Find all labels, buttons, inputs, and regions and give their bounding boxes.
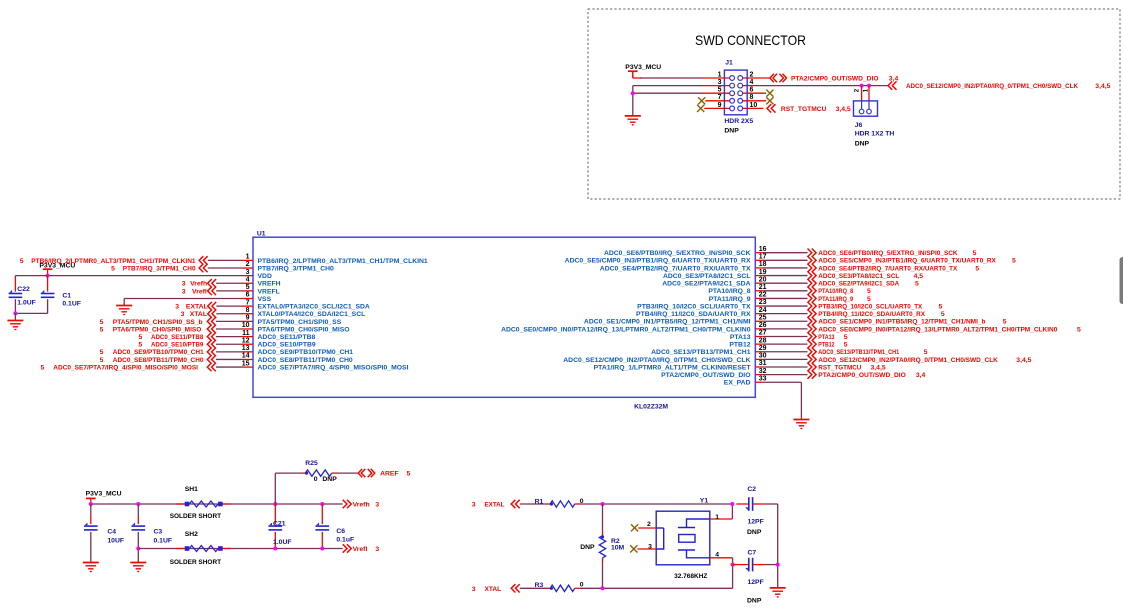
svg-text:1.0UF: 1.0UF xyxy=(273,539,292,546)
wire VDD rail xyxy=(48,275,242,277)
pin 8 U1 stub xyxy=(242,313,254,315)
wire U1 pin12 to port xyxy=(216,343,242,345)
svg-text:C22: C22 xyxy=(17,286,30,293)
wire J1 pin8 red stub xyxy=(742,100,766,102)
svg-text:9: 9 xyxy=(246,315,250,322)
wire U1 pin4 to port xyxy=(216,282,241,284)
wire C4 top leg xyxy=(90,504,92,517)
svg-text:SWD CONNECTOR: SWD CONNECTOR xyxy=(695,33,806,48)
svg-text:VSS: VSS xyxy=(258,296,272,303)
svg-text:XTAL: XTAL xyxy=(190,311,207,318)
wire U1 pin22 to port xyxy=(763,297,808,299)
wire C3 top leg red xyxy=(137,517,139,525)
svg-text:8: 8 xyxy=(246,307,250,314)
port PTA10/IRQ_8 (right) xyxy=(808,287,817,295)
svg-text:ADC0_SE2/PTA9/I2C1_SDA: ADC0_SE2/PTA9/I2C1_SDA xyxy=(818,281,899,288)
svg-text:PTB3/IRQ_10/I2C0_SCL/UART0_TX: PTB3/IRQ_10/I2C0_SCL/UART0_TX xyxy=(818,303,922,310)
wire U1 pin10 to port xyxy=(216,328,242,330)
port Vrefl (right) xyxy=(343,544,352,552)
svg-text:ADC0_SE9/PTB10/TPM0_CH1: ADC0_SE9/PTB10/TPM0_CH1 xyxy=(113,349,204,356)
pin 29 U1 stub xyxy=(755,351,763,353)
wire J1 pin2 red stub xyxy=(742,77,770,79)
wire XTAL to R3 xyxy=(520,587,546,589)
junction J6 pin2 tap xyxy=(860,84,864,88)
port ADC0_SE4/PTB2/IRQ_7/UART0_RX/UART0_TX (right) xyxy=(808,264,817,272)
svg-text:5: 5 xyxy=(20,258,24,265)
svg-text:20: 20 xyxy=(759,276,767,283)
svg-text:Vrefh: Vrefh xyxy=(190,281,207,288)
pin 1 U1 stub xyxy=(242,259,254,261)
svg-text:DNP: DNP xyxy=(747,598,762,605)
svg-text:ADC0_SE7/PTA7/IRQ_4/SPI0_MISO/: ADC0_SE7/PTA7/IRQ_4/SPI0_MISO/SPI0_MOSI xyxy=(53,364,198,371)
svg-text:1: 1 xyxy=(718,71,722,78)
wire R2 bottom red xyxy=(602,558,604,563)
svg-text:0.1UF: 0.1UF xyxy=(154,537,173,544)
svg-text:RST_TGTMCU: RST_TGTMCU xyxy=(781,106,827,113)
wire J1 pin9 red stub xyxy=(704,107,730,109)
wire U1 pin21 to port xyxy=(763,290,808,292)
svg-text:HDR 1X2 TH: HDR 1X2 TH xyxy=(855,131,895,138)
wire U1 pin15 to port xyxy=(216,366,242,368)
junction vref rail / C21 xyxy=(273,502,277,506)
svg-text:5: 5 xyxy=(100,319,104,326)
svg-text:PTB6/IRQ_2/LPTMR0_ALT3/TPM1_CH: PTB6/IRQ_2/LPTMR0_ALT3/TPM1_CH1/TPM_CLKI… xyxy=(258,258,428,265)
svg-text:2: 2 xyxy=(750,71,754,78)
svg-text:C7: C7 xyxy=(748,550,757,557)
svg-text:5: 5 xyxy=(718,87,722,94)
wire R25 left red xyxy=(301,472,305,474)
ground EX_PAD xyxy=(793,420,809,429)
pin 2 U1 stub xyxy=(242,267,254,269)
svg-text:Vrefl: Vrefl xyxy=(353,546,368,553)
crystal internal symbol xyxy=(656,519,710,558)
wire U1 pin32 to port xyxy=(763,374,808,376)
wire J1 pin10 red stub xyxy=(742,107,764,109)
svg-text:ADC0_SE0/CMP0_IN0/PTA12/IRQ_13: ADC0_SE0/CMP0_IN0/PTA12/IRQ_13/LPTMR0_AL… xyxy=(818,326,1057,333)
svg-text:PTA5/TPM0_CH1/SPI0_SS_b: PTA5/TPM0_CH1/SPI0_SS_b xyxy=(113,319,203,326)
svg-text:ADC0_SE4/PTB2/IRQ_7/UART0_RX/U: ADC0_SE4/PTB2/IRQ_7/UART0_RX/UART0_TX xyxy=(600,265,751,272)
junction pin4 / C7 row xyxy=(731,563,735,567)
pin 12 U1 stub xyxy=(242,343,254,345)
wire C1 bottom leg xyxy=(47,299,49,313)
port ADC0_SE1/CMP0_IN1/PTB5/IRQ_12/TPM1_CH1/NMI_b (right) xyxy=(808,317,817,325)
port ADC0_SE10/PTB9 (left) xyxy=(207,340,216,348)
wire C3 bottom leg xyxy=(137,532,139,563)
wire J1 pin5 red stub xyxy=(703,92,731,94)
wire U1 pin17 to port xyxy=(763,259,808,261)
svg-text:5: 5 xyxy=(867,288,871,295)
svg-text:PTA11/IRQ_9: PTA11/IRQ_9 xyxy=(709,296,751,303)
wire U1 pin14 to port xyxy=(216,358,242,360)
svg-text:ADC0_SE3/PTA8/I2C1_SCL: ADC0_SE3/PTA8/I2C1_SCL xyxy=(818,273,899,280)
junction R3 / R2 bottom xyxy=(601,586,605,590)
port ADC0_SE5/CMP0_IN3/PTB1/IRQ_6/UART0_TX/UART0_RX (right) xyxy=(808,256,817,264)
svg-text:DNP: DNP xyxy=(855,140,870,147)
svg-text:5: 5 xyxy=(1003,319,1007,326)
wire to SH2 left xyxy=(176,548,185,550)
wire U1 pin26 to port xyxy=(763,328,808,330)
svg-text:1: 1 xyxy=(246,254,250,261)
port ADC0_SE12/CMP0_IN2/PTA0/IRQ_0/TPM1_CH0/SWD_CLK (right) xyxy=(808,355,817,363)
port Vrefh (right) xyxy=(343,500,352,508)
pin 9 U1 stub xyxy=(242,320,254,322)
svg-text:0: 0 xyxy=(314,476,318,483)
svg-text:AREF: AREF xyxy=(380,471,399,478)
svg-text:3: 3 xyxy=(718,79,722,86)
port PTB7/IRQ_3/TPM1_CH0 (left) xyxy=(199,264,208,272)
svg-text:5: 5 xyxy=(407,471,411,478)
svg-text:3: 3 xyxy=(648,543,652,550)
wire gnd rail vertical at J1 xyxy=(632,86,634,116)
wire J1 pin1 row maroon xyxy=(640,77,703,79)
svg-text:ADC0_SE10/PTB9: ADC0_SE10/PTB9 xyxy=(258,342,316,349)
pin 24 U1 stub xyxy=(755,313,763,315)
svg-text:SOLDER SHORT: SOLDER SHORT xyxy=(170,513,222,520)
svg-text:22: 22 xyxy=(759,292,767,299)
pin 10 U1 stub xyxy=(242,328,254,330)
wire C21 node up to R25 xyxy=(274,473,276,504)
svg-text:C1: C1 xyxy=(62,293,71,300)
wire C7 right to rail xyxy=(765,564,778,566)
wire C6 bottom leg xyxy=(321,532,323,549)
svg-text:3,4: 3,4 xyxy=(889,75,899,82)
svg-text:C4: C4 xyxy=(107,529,116,536)
svg-text:DNP: DNP xyxy=(747,529,762,536)
wire U1 pin7 to port xyxy=(216,305,241,307)
power bar P3V3_MCU (SWD) xyxy=(628,71,638,78)
junction vref rail / C4 xyxy=(89,502,93,506)
pin 17 U1 stub xyxy=(755,259,763,261)
wire C4 bottom leg xyxy=(90,532,92,563)
svg-text:Y1: Y1 xyxy=(700,497,709,504)
pin 30 U1 stub xyxy=(755,358,763,360)
wire U1 pin16 to port xyxy=(763,252,808,254)
wire U1 pin1 to port xyxy=(208,259,242,261)
svg-text:EXTAL0/PTA3/I2C0_SCL/I2C1_SDA: EXTAL0/PTA3/I2C0_SCL/I2C1_SDA xyxy=(258,304,370,311)
wire J6 pin1 vertical red xyxy=(868,86,870,102)
junction P3V3 rail / C1 xyxy=(46,274,50,278)
wire crystal right rail xyxy=(777,504,779,588)
wire U1 pin19 to port xyxy=(763,275,808,277)
svg-text:PTA10/IRQ_8: PTA10/IRQ_8 xyxy=(818,288,853,295)
power bar P3V3_MCU (vref) xyxy=(86,498,96,504)
svg-text:5: 5 xyxy=(915,281,919,288)
port RST_TGTMCU (right) xyxy=(808,363,817,371)
wire J1 pin4 red stub xyxy=(742,85,755,87)
pin 4 U1 stub xyxy=(242,282,254,284)
svg-text:3: 3 xyxy=(182,288,186,295)
svg-text:R1: R1 xyxy=(535,498,544,505)
pin 20 U1 stub xyxy=(755,282,763,284)
port ADC0_SE0/CMP0_IN0/PTA12/IRQ_13/LPTMR0_ALT2/TPM1_CH0/TPM_CLKIN0 (right) xyxy=(808,325,817,333)
svg-text:DNP: DNP xyxy=(580,544,595,551)
svg-text:P3V3_MCU: P3V3_MCU xyxy=(86,491,122,498)
svg-text:30: 30 xyxy=(759,353,767,360)
svg-text:PTB12: PTB12 xyxy=(729,342,750,349)
svg-text:10UF: 10UF xyxy=(107,537,124,544)
svg-text:PTA13: PTA13 xyxy=(818,334,834,341)
pin 21 U1 stub xyxy=(755,290,763,292)
wire C6 top leg xyxy=(321,504,323,524)
wire R3 left red xyxy=(546,587,550,589)
wire to SH1 left xyxy=(176,503,185,505)
pin 15 U1 stub xyxy=(242,366,254,368)
wire R1 to crystal rail xyxy=(580,503,732,505)
svg-text:5: 5 xyxy=(939,303,943,310)
pin 16 U1 stub xyxy=(755,252,763,254)
svg-text:PTA13: PTA13 xyxy=(730,334,751,341)
wire U1 pin8 to port xyxy=(216,313,241,315)
svg-text:5: 5 xyxy=(139,342,143,349)
svg-text:VREFH: VREFH xyxy=(258,281,281,288)
wire R3 right red xyxy=(575,587,580,589)
power bar P3V3_MCU (U1) xyxy=(43,269,53,275)
pin 11 U1 stub xyxy=(242,336,254,338)
junction R1 / R2 xyxy=(601,502,605,506)
svg-text:2: 2 xyxy=(647,521,651,528)
svg-text:11: 11 xyxy=(242,330,250,337)
pin 7 U1 stub xyxy=(242,305,254,307)
svg-text:PTB7/IRQ_3/TPM1_CH0: PTB7/IRQ_3/TPM1_CH0 xyxy=(258,265,335,272)
port ADC0_SE6/PTB0/IRQ_5/EXTRG_IN/SPI0_SCK (right) xyxy=(808,249,817,257)
svg-text:PTB4/IRQ_11/I2C0_SDA/UART0_RX: PTB4/IRQ_11/I2C0_SDA/UART0_RX xyxy=(818,311,925,318)
wire Y1 pin4 down to XTAL rail xyxy=(732,558,734,589)
wire rail to C22 xyxy=(15,275,47,277)
svg-text:5: 5 xyxy=(1077,326,1081,333)
wire C4 top leg red xyxy=(90,517,92,525)
port ADC0_SE2/PTA9/I2C1_SDA (right) xyxy=(808,279,817,287)
svg-text:ADC0_SE13/PTB13/TPM1_CH1: ADC0_SE13/PTB13/TPM1_CH1 xyxy=(651,349,751,356)
wire R25 right red xyxy=(332,472,338,474)
svg-text:ADC0_SE8/PTB11/TPM0_CH0: ADC0_SE8/PTB11/TPM0_CH0 xyxy=(258,357,353,364)
svg-text:3,4,5: 3,4,5 xyxy=(871,364,886,371)
svg-text:C6: C6 xyxy=(336,528,345,535)
wire C7 right red xyxy=(754,564,765,566)
svg-text:ADC0_SE12/CMP0_IN2/PTA0/IRQ_0/: ADC0_SE12/CMP0_IN2/PTA0/IRQ_0/TPM1_CH0/S… xyxy=(563,357,750,364)
wire EX_PAD pin33 xyxy=(763,381,802,383)
svg-text:3: 3 xyxy=(375,501,379,508)
svg-text:ADC0_SE1/CMP0_IN1/PTB5/IRQ_12/: ADC0_SE1/CMP0_IN1/PTB5/IRQ_12/TPM1_CH1/N… xyxy=(818,319,985,326)
svg-text:5: 5 xyxy=(1012,258,1016,265)
wire R3 to pin4 node xyxy=(580,587,733,589)
wire U1 pin23 to port xyxy=(763,305,808,307)
pin 13 U1 stub xyxy=(242,351,254,353)
svg-text:5: 5 xyxy=(844,342,848,349)
svg-text:PTA11/IRQ_9: PTA11/IRQ_9 xyxy=(818,296,853,303)
wire C22 top leg xyxy=(14,276,16,292)
svg-text:4,5: 4,5 xyxy=(914,273,924,280)
svg-text:SH1: SH1 xyxy=(185,486,198,493)
port ADC0_SE8/PTB11/TPM0_CH0 (left) xyxy=(207,355,216,363)
svg-text:ADC0_SE6/PTB0/IRQ_5/EXTRG_IN/S: ADC0_SE6/PTB0/IRQ_5/EXTRG_IN/SPI0_SCK xyxy=(604,250,751,257)
svg-text:5: 5 xyxy=(867,296,871,303)
svg-text:3,4,5: 3,4,5 xyxy=(1016,357,1031,364)
port PTB12 (right) xyxy=(808,340,817,348)
svg-text:1.0UF: 1.0UF xyxy=(17,300,36,307)
svg-text:14: 14 xyxy=(242,353,250,360)
svg-text:PTA1/IRQ_1/LPTMR0_ALT1/TPM_CLK: PTA1/IRQ_1/LPTMR0_ALT1/TPM_CLKIN0/RESET xyxy=(594,364,752,371)
wire C1 top leg xyxy=(47,276,49,292)
svg-text:7: 7 xyxy=(718,94,722,101)
wire U1 pin31 to port xyxy=(763,366,808,368)
wire C7 row left xyxy=(733,564,748,566)
pin 27 U1 stub xyxy=(755,336,763,338)
junction C21 / bottom rail xyxy=(273,547,277,551)
wire C2 right red xyxy=(754,503,765,505)
svg-text:PTA10/IRQ_8: PTA10/IRQ_8 xyxy=(708,288,750,295)
svg-text:PTB7/IRQ_3/TPM1_CH0: PTB7/IRQ_3/TPM1_CH0 xyxy=(123,265,196,272)
svg-text:5: 5 xyxy=(41,364,45,371)
svg-text:ADC0_SE1/CMP0_IN1/PTB5/IRQ_12/: ADC0_SE1/CMP0_IN1/PTB5/IRQ_12/TPM1_CH1/N… xyxy=(584,319,751,326)
svg-text:EXTAL: EXTAL xyxy=(186,304,208,311)
wire SH1 right xyxy=(223,503,231,505)
port RST_TGTMCU at J1 xyxy=(767,104,776,112)
svg-text:13: 13 xyxy=(242,345,250,352)
ground under C4 xyxy=(83,563,99,572)
svg-text:26: 26 xyxy=(759,322,767,329)
svg-text:3: 3 xyxy=(181,311,185,318)
svg-text:XTAL0/PTA4/I2C0_SDA/I2C1_SCL: XTAL0/PTA4/I2C0_SDA/I2C1_SCL xyxy=(258,311,366,318)
svg-text:28: 28 xyxy=(759,337,767,344)
svg-text:21: 21 xyxy=(759,284,767,291)
svg-text:PTB12: PTB12 xyxy=(818,342,834,349)
no-connect X Y1 pin2 xyxy=(631,524,638,531)
wire U1 pin29 to port xyxy=(763,351,808,353)
svg-text:5: 5 xyxy=(975,265,979,272)
wire R1 left red xyxy=(546,503,550,505)
svg-text:18: 18 xyxy=(759,261,767,268)
svg-text:ADC0_SE5/CMP0_IN3/PTB1/IRQ_6/U: ADC0_SE5/CMP0_IN3/PTB1/IRQ_6/UART0_TX/UA… xyxy=(818,258,996,265)
svg-text:SOLDER SHORT: SOLDER SHORT xyxy=(170,559,222,566)
wire C21 top leg xyxy=(274,504,276,524)
svg-text:VDD: VDD xyxy=(258,273,272,280)
scrollbar thumb (browser) xyxy=(1120,257,1123,304)
no-connect X Y1 pin3 xyxy=(630,545,637,552)
svg-text:5: 5 xyxy=(100,357,104,364)
svg-text:DNP: DNP xyxy=(322,476,337,483)
svg-text:PTA2/CMP0_OUT/SWD_DIO: PTA2/CMP0_OUT/SWD_DIO xyxy=(791,75,879,82)
svg-text:1: 1 xyxy=(715,514,719,521)
svg-text:15: 15 xyxy=(242,360,250,367)
svg-text:VREFL: VREFL xyxy=(258,288,280,295)
port PTA2/CMP0_OUT/SWD_DIO (right) xyxy=(808,370,817,378)
svg-text:ADC0_SE6/PTB0/IRQ_5/EXTRG_IN/S: ADC0_SE6/PTB0/IRQ_5/EXTRG_IN/SPI0_SCK xyxy=(818,250,957,257)
svg-text:ADC0_SE8/PTB11/TPM0_CH0: ADC0_SE8/PTB11/TPM0_CH0 xyxy=(113,357,204,364)
svg-text:0: 0 xyxy=(580,581,584,588)
junction pin1 / EXTAL rail xyxy=(730,502,734,506)
wire U1 pin5 to port xyxy=(216,290,241,292)
svg-text:R25: R25 xyxy=(305,460,318,467)
svg-text:25: 25 xyxy=(759,314,767,321)
wire U1 pin30 to port xyxy=(763,358,808,360)
svg-text:6: 6 xyxy=(750,87,754,94)
wire C2 left red xyxy=(736,503,748,505)
wire R25 to AREF xyxy=(338,472,358,474)
svg-text:C2: C2 xyxy=(747,486,756,493)
svg-text:ADC0_SE13/PTB13/TPM1_CH1: ADC0_SE13/PTB13/TPM1_CH1 xyxy=(818,349,899,356)
svg-text:ADC0_SE7/PTA7/IRQ_4/SPI0_MISO/: ADC0_SE7/PTA7/IRQ_4/SPI0_MISO/SPI0_MOSI xyxy=(258,364,409,371)
svg-text:31: 31 xyxy=(759,360,767,367)
svg-text:12PF: 12PF xyxy=(748,518,764,525)
wire J1 pin1 red stub xyxy=(703,77,731,79)
pin 22 U1 stub xyxy=(755,297,763,299)
wire U1 pin25 to port xyxy=(763,320,808,322)
wire J1 pin4 long (SWD_CLK net) xyxy=(755,85,888,87)
svg-text:PTA5/TPM0_CH1/SPI0_SS: PTA5/TPM0_CH1/SPI0_SS xyxy=(258,319,342,326)
svg-text:PTA6/TPM0_CH0/SPI0_MISO: PTA6/TPM0_CH0/SPI0_MISO xyxy=(113,326,202,333)
svg-text:33: 33 xyxy=(759,375,767,382)
svg-text:3: 3 xyxy=(472,586,476,593)
port EXTAL (left) xyxy=(208,302,217,310)
port ADC0_SE9/PTB10/TPM0_CH1 (left) xyxy=(207,348,216,356)
wire Y1 pin2 stub xyxy=(638,527,656,529)
port ADC0_SE13/PTB13/TPM1_CH1 (right) xyxy=(808,348,817,356)
wire U1 pin18 to port xyxy=(763,267,808,269)
port ADC0_SE7/PTA7/IRQ_4/SPI0_MISO/SPI0_MOSI (left) xyxy=(207,363,216,371)
wire Y1 pin1 up to rail xyxy=(731,504,733,519)
svg-text:PTA2/CMP0_OUT/SWD_DIO: PTA2/CMP0_OUT/SWD_DIO xyxy=(818,372,906,379)
svg-text:5: 5 xyxy=(100,349,104,356)
wire bottom rail xyxy=(138,548,342,550)
wire to ground C22 xyxy=(14,313,16,320)
svg-text:4: 4 xyxy=(246,276,250,283)
no-connect X J1 pin8 xyxy=(766,97,773,104)
wire R2 bottom xyxy=(602,563,604,589)
svg-text:5: 5 xyxy=(111,265,115,272)
port XTAL (left) xyxy=(208,310,217,318)
svg-text:J1: J1 xyxy=(725,59,733,66)
wire J1 pin5 row xyxy=(633,92,703,94)
svg-text:C21: C21 xyxy=(273,521,286,528)
port PTA5/TPM0_CH1/SPI0_SS_b (left) xyxy=(207,317,216,325)
port PTA2/CMP0_OUT/SWD_DIO (bidir) xyxy=(770,74,787,82)
wire U1 pin27 to port xyxy=(763,336,808,338)
pin 5 U1 stub xyxy=(242,290,254,292)
junction C3 leg / bottom rail xyxy=(136,547,140,551)
port Vrefh (left) xyxy=(208,279,217,287)
pin 28 U1 stub xyxy=(755,343,763,345)
svg-text:4: 4 xyxy=(715,551,719,558)
svg-text:9: 9 xyxy=(718,102,722,109)
svg-text:8: 8 xyxy=(750,94,754,101)
svg-text:6: 6 xyxy=(246,292,250,299)
port ADC0_SE3/PTA8/I2C1_SCL (right) xyxy=(808,271,817,279)
wire J1 pin7 red stub xyxy=(705,100,730,102)
svg-text:EX_PAD: EX_PAD xyxy=(724,380,751,387)
wire J6 pin2 vertical red xyxy=(861,86,863,102)
ground under C22 xyxy=(7,321,23,330)
port ADC0_SE12 SWD_CLK xyxy=(888,81,897,89)
wire SH2 right xyxy=(223,548,231,550)
wire VSS down xyxy=(123,299,125,306)
pin 32 U1 stub xyxy=(755,374,763,376)
wire C3 top leg xyxy=(137,504,139,517)
ground VSS xyxy=(116,306,132,315)
wire Y1 pin1 red xyxy=(710,518,733,520)
svg-text:5: 5 xyxy=(246,284,250,291)
svg-text:7: 7 xyxy=(246,299,250,306)
port Vrefl (left) xyxy=(208,287,217,295)
port PTA6/TPM0_CH0/SPI0_MISO (left) xyxy=(207,325,216,333)
svg-text:ADC0_SE11/PTB8: ADC0_SE11/PTB8 xyxy=(151,334,203,341)
svg-text:5: 5 xyxy=(924,349,928,356)
svg-text:ADC0_SE12/CMP0_IN2/PTA0/IRQ_0/: ADC0_SE12/CMP0_IN2/PTA0/IRQ_0/TPM1_CH0/S… xyxy=(906,83,1078,90)
svg-text:4: 4 xyxy=(750,79,754,86)
svg-text:3,4,5: 3,4,5 xyxy=(1095,83,1110,90)
pin 33 U1 stub xyxy=(755,381,763,383)
MCU U1 body (KL02Z32M) xyxy=(253,237,755,397)
wire J1 pin3 red stub xyxy=(703,85,731,87)
